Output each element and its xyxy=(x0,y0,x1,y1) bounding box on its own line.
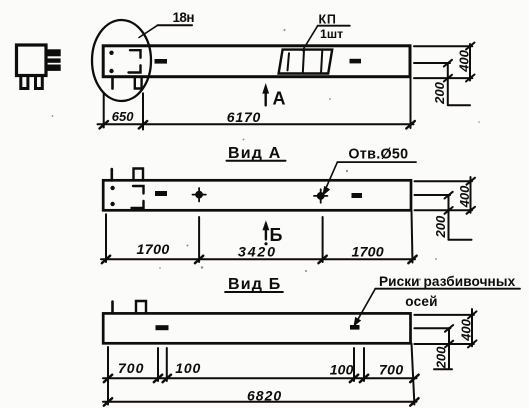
view A embedded plate mark right xyxy=(352,193,363,198)
KP package divider 1 xyxy=(288,53,290,70)
view B row1 tick 5 xyxy=(360,375,368,383)
view B dim: axis extension pair right b xyxy=(363,348,365,381)
svg-text:3420: 3420 xyxy=(238,244,277,260)
label riski leader arrowhead xyxy=(354,318,361,326)
plan dim tick 650 xyxy=(139,121,147,129)
view B 200 tick bottom xyxy=(445,341,453,348)
view A beam outline xyxy=(103,180,411,210)
label KP underline xyxy=(318,25,350,27)
plan bottom right extension line xyxy=(410,78,412,128)
plan: hidden corner bracket bottom xyxy=(129,65,141,72)
svg-text:Отв.Ø50: Отв.Ø50 xyxy=(348,146,408,162)
scan speckles xyxy=(52,29,480,281)
svg-text:Б: Б xyxy=(270,225,283,245)
view A dim: right extension xyxy=(412,211,413,263)
view arrow A shaft xyxy=(265,87,267,105)
plan 400 tick top xyxy=(466,43,475,50)
view B row1 tick 2 xyxy=(154,375,162,383)
label riski underline xyxy=(375,288,520,290)
view B 200 tick top xyxy=(445,325,453,332)
view B direction arrow dot xyxy=(264,242,267,245)
view A 200 dimension line xyxy=(448,195,450,240)
view B 400 dimension line xyxy=(471,309,473,346)
view A dim tick 2 xyxy=(195,256,203,264)
view B dim: axis extension pair left a xyxy=(157,348,159,381)
plan right: top extension line xyxy=(414,45,472,47)
view A hole 1 cross xyxy=(193,188,206,202)
svg-text:осей: осей xyxy=(405,294,437,309)
svg-text:Риски разбивочных: Риски разбивочных xyxy=(379,274,516,289)
view A right: top extension line xyxy=(415,180,473,182)
plan 650 left extension line xyxy=(103,93,105,128)
view B right: middle extension line xyxy=(414,327,450,329)
svg-text:18н: 18н xyxy=(173,10,195,25)
KP package divider 3 xyxy=(321,50,322,74)
svg-text:КП: КП xyxy=(319,12,337,26)
view A top tab tick xyxy=(111,169,114,181)
plan: hidden corner bracket top xyxy=(130,50,141,58)
view arrow A head xyxy=(263,85,268,93)
label 18н underline xyxy=(158,24,193,26)
view A dim tick 3 xyxy=(318,256,326,264)
plan: right leg below beam xyxy=(135,78,142,89)
svg-text:200: 200 xyxy=(432,81,447,104)
view A top tab box xyxy=(134,169,144,181)
plan 200 tick top xyxy=(444,60,452,67)
plan dim tick left xyxy=(100,121,109,129)
plan 200 dimension line xyxy=(447,63,449,105)
view A 200 shelf xyxy=(449,239,472,241)
view A hole 2 cross xyxy=(314,189,327,203)
view B direction arrow shaft xyxy=(265,224,267,239)
view B row2 tick right xyxy=(410,398,418,406)
label 18н leader line xyxy=(139,25,158,37)
view B dim: axis extension pair right a xyxy=(353,348,355,381)
plan right: middle extension line xyxy=(414,62,450,64)
view B dimension row 2 line xyxy=(103,401,417,403)
plan: embedded plate mark right xyxy=(350,59,362,64)
plan bottom dimension line xyxy=(98,123,414,125)
svg-text:400: 400 xyxy=(457,185,472,208)
view A 200 tick bottom xyxy=(445,207,453,214)
plan: bolt dot lower xyxy=(109,69,113,73)
view A right: middle extension line xyxy=(415,194,451,196)
plan 650 right extension line xyxy=(142,93,144,129)
svg-text:6820: 6820 xyxy=(247,387,282,403)
view B embedded plate mark xyxy=(156,325,169,330)
view B beam outline xyxy=(103,313,410,343)
KP package divider 2 xyxy=(303,50,304,73)
svg-text:6170: 6170 xyxy=(227,109,261,125)
title Vid B underline xyxy=(225,291,283,293)
section icon: square body xyxy=(17,45,47,76)
view A embedded plate mark left xyxy=(155,191,167,196)
svg-text:100: 100 xyxy=(330,361,354,377)
plan 200 shelf xyxy=(448,104,470,106)
svg-text:400: 400 xyxy=(459,318,474,341)
svg-text:Вид А: Вид А xyxy=(228,145,282,162)
plan right: bottom extension line xyxy=(414,77,472,79)
view A right: bottom extension line xyxy=(415,209,473,211)
view A hidden corner bracket top xyxy=(133,186,144,194)
section icon: right tab bar 1 xyxy=(48,50,61,56)
plan 200 tick bottom xyxy=(444,75,452,82)
view B right: bottom extension line xyxy=(414,343,474,345)
section icon: bottom-right leg xyxy=(36,78,43,89)
plan: embedded plate mark left xyxy=(155,59,168,64)
svg-text:1700: 1700 xyxy=(137,242,170,258)
section icon: bottom-left leg xyxy=(21,78,28,89)
plan: left leg below beam xyxy=(111,77,114,89)
svg-text:1700: 1700 xyxy=(352,244,384,260)
view B 200 dimension line xyxy=(448,328,450,369)
view A 400 dimension line xyxy=(470,177,472,213)
view B top tab tick xyxy=(111,302,114,314)
view B risk mark xyxy=(350,325,360,330)
view B row1 tick 3 xyxy=(163,375,171,383)
svg-text:700: 700 xyxy=(379,361,404,377)
view A 400 tick top xyxy=(467,178,476,185)
view B dim: axis extension pair left b xyxy=(166,348,168,381)
view B right: top extension line xyxy=(414,314,474,316)
view A bolt dot lower xyxy=(110,202,114,206)
label Otv underline xyxy=(337,161,416,163)
svg-text:100: 100 xyxy=(175,360,201,376)
view B direction arrow head xyxy=(263,222,268,229)
view A hidden corner bracket bottom xyxy=(132,201,144,208)
section icon: right tab bar 2 xyxy=(48,59,61,62)
plan 400 dimension line xyxy=(469,44,471,81)
view B row1 tick 1 xyxy=(104,375,112,383)
svg-text:400: 400 xyxy=(457,49,472,72)
view A bolt dot upper xyxy=(110,186,114,190)
label KP leader xyxy=(303,26,318,51)
view A dim: hole2 extension xyxy=(322,217,324,262)
label Otv leader xyxy=(324,162,337,192)
KP package parallelogram xyxy=(279,50,333,74)
view B dim: right extension xyxy=(412,344,415,405)
view B row1 tick 6 xyxy=(410,375,418,383)
view A dim: hole1 extension xyxy=(198,217,200,262)
svg-text:А: А xyxy=(273,88,286,108)
view B dim: left extension xyxy=(107,347,109,405)
svg-text:650: 650 xyxy=(112,109,134,124)
view B 400 tick top xyxy=(468,311,477,318)
plan: bolt dot upper xyxy=(109,51,113,55)
plan dim tick right xyxy=(406,121,415,129)
title Vid A underline xyxy=(227,160,286,162)
view B top tab box xyxy=(136,301,146,313)
view A dimension line xyxy=(101,258,415,260)
svg-text:200: 200 xyxy=(434,346,449,369)
view A dim: left extension xyxy=(105,214,107,262)
label Otv leader arrowhead xyxy=(323,187,330,196)
view A dim tick 4 xyxy=(408,256,416,264)
beam plan view outline xyxy=(103,46,410,77)
view A 400 tick bottom xyxy=(467,207,476,214)
view B 200 shelf xyxy=(434,368,452,370)
section icon: right tab bar 3 xyxy=(48,65,61,70)
view B dimension row 1 line xyxy=(103,377,417,379)
view A dim tick 1 xyxy=(102,256,110,264)
view B row1 tick 4 xyxy=(350,375,358,383)
svg-text:1шт: 1шт xyxy=(320,27,343,41)
view B row2 tick left xyxy=(104,398,112,406)
svg-text:Вид Б: Вид Б xyxy=(228,276,282,293)
view A 200 tick top xyxy=(445,192,453,199)
label riski leader xyxy=(355,289,375,325)
svg-text:700: 700 xyxy=(118,360,144,376)
view B 400 tick bottom xyxy=(468,340,477,347)
plan 400 tick bottom xyxy=(466,75,475,82)
detail ellipse around column head xyxy=(92,20,151,101)
svg-text:200: 200 xyxy=(433,215,448,238)
